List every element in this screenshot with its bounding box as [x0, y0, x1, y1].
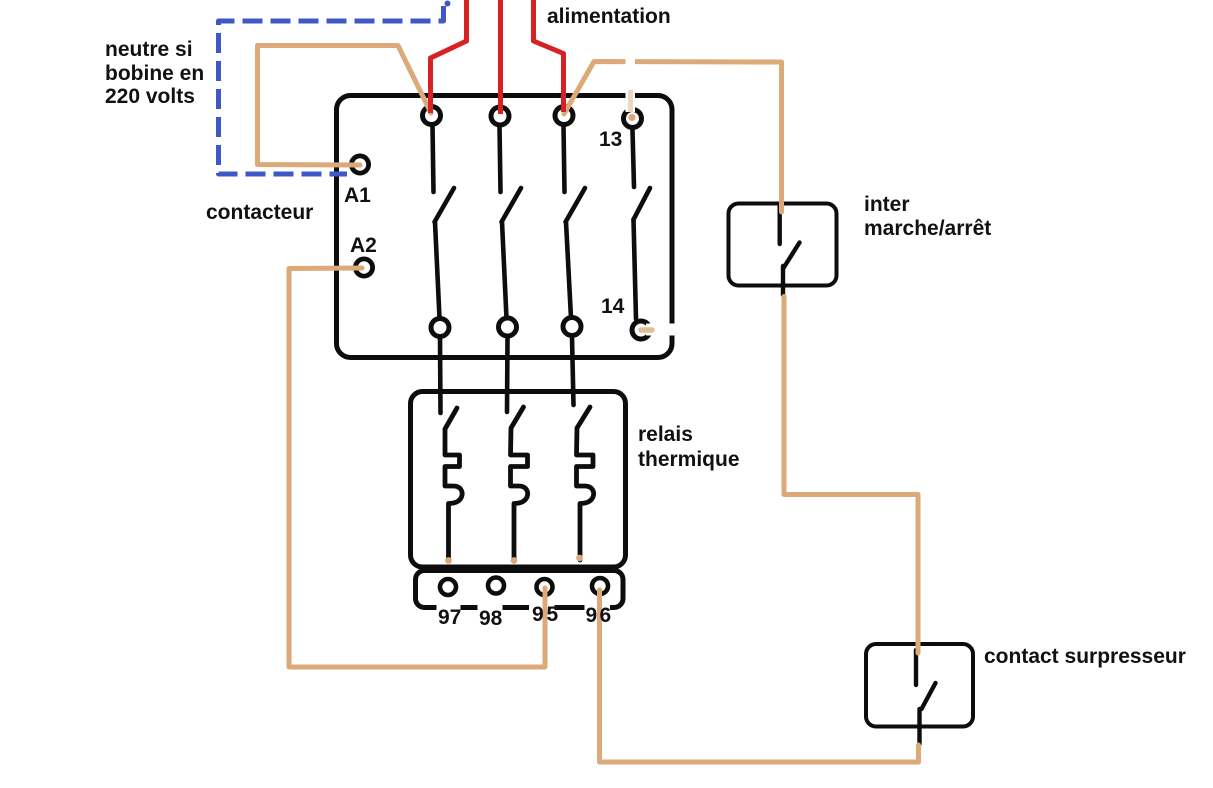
svg-text:alimentation: alimentation: [547, 5, 671, 28]
red supply wire L1: [431, 0, 467, 113]
blue dashed neutral path: [219, 6, 444, 174]
tan dot element 2: [511, 557, 518, 564]
contactor pole 1 contact: [433, 126, 455, 318]
wire B1 to thermal element 1: [438, 338, 443, 413]
wire tan switch to surpresseur: [784, 297, 918, 654]
contactor box: [337, 96, 673, 358]
thermal element 2: [511, 407, 528, 560]
white wire over tan to terminal 13: [626, 54, 636, 112]
blue dot: [445, 1, 451, 7]
switch contact surpresseur: [916, 650, 936, 744]
contactor auxiliary contact 13-14: [633, 130, 651, 319]
contactor pole 3 contact: [564, 126, 586, 318]
thermal element 3: [577, 407, 594, 560]
terminal 96: [592, 578, 608, 594]
tan dot terminal 14: [641, 327, 652, 333]
svg-text:neutre si: neutre si: [105, 38, 193, 61]
terminal 95: [537, 579, 553, 595]
svg-text:thermique: thermique: [638, 448, 740, 471]
svg-text:bobine en: bobine en: [105, 62, 204, 85]
terminal B1: [431, 319, 449, 337]
tan dot element 3: [576, 555, 583, 562]
svg-text:97: 97: [438, 606, 461, 629]
terminal 98: [488, 578, 504, 594]
label background 98: [478, 603, 503, 626]
svg-text:relais: relais: [638, 423, 693, 446]
svg-text:14: 14: [601, 295, 625, 318]
white wire from terminal 14: [646, 324, 746, 336]
svg-text:13: 13: [599, 128, 622, 151]
svg-text:220 volts: 220 volts: [105, 85, 195, 108]
terminal 13: [624, 110, 642, 128]
terminal 14: [632, 321, 650, 339]
switch box inter marche/arret: [729, 204, 837, 286]
wire tan 96 to surpresseur bottom: [600, 590, 919, 762]
thermal relay box: [411, 392, 626, 568]
svg-text:9: 9: [532, 603, 544, 626]
tan dot element 1: [445, 557, 452, 564]
svg-text:9: 9: [586, 604, 598, 627]
terminal A2: [355, 259, 372, 276]
red supply wire L3: [534, 0, 564, 112]
wire B2 to thermal element 2: [505, 338, 510, 412]
svg-text:A1: A1: [344, 184, 371, 207]
wire B3 to thermal element 3: [572, 337, 574, 405]
terminal 97: [440, 579, 456, 595]
label background 97: [437, 601, 461, 625]
svg-text:5: 5: [547, 603, 559, 626]
tan dot terminal 13: [628, 114, 635, 121]
switch box contact surpresseur: [866, 644, 973, 727]
wire neutre tan A1 loop: [258, 46, 432, 166]
contactor pole 2 contact: [500, 126, 522, 318]
wire tan T3 to switch: [564, 62, 782, 213]
switch contact inter marche/arret: [780, 204, 800, 295]
terminal B2: [499, 318, 517, 336]
terminal B3: [563, 318, 581, 336]
svg-text:contact surpresseur: contact surpresseur: [984, 645, 1186, 668]
red supply wire L2: [498, 0, 503, 114]
svg-text:98: 98: [479, 607, 503, 630]
terminal T2: [491, 107, 509, 125]
svg-text:inter: inter: [864, 193, 910, 216]
thermal relay terminal strip: [416, 571, 624, 608]
svg-text:A2: A2: [350, 234, 377, 257]
terminal A1: [351, 156, 368, 173]
terminal T1: [423, 107, 441, 125]
pale tan wire stub to 13: [628, 90, 633, 112]
svg-text:contacteur: contacteur: [206, 201, 313, 224]
svg-text:6: 6: [600, 604, 612, 627]
label background 96: [585, 601, 611, 624]
thermal element 1: [445, 408, 462, 560]
wire tan A2 to 95: [289, 268, 545, 667]
terminal T3: [555, 107, 573, 125]
svg-text:marche/arrêt: marche/arrêt: [864, 217, 991, 240]
label background 95: [529, 598, 555, 622]
